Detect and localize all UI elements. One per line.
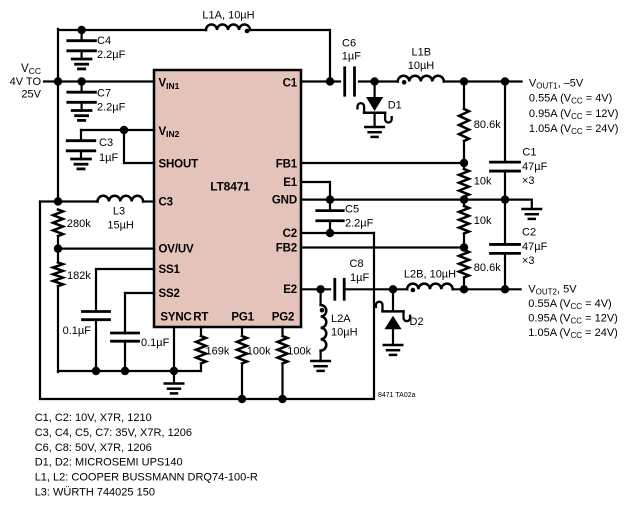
svg-text:L2B, 10µH: L2B, 10µH [404, 269, 456, 281]
svg-text:FB1: FB1 [276, 158, 298, 170]
svg-text:2.2µF: 2.2µF [345, 218, 374, 230]
svg-text:0.55A (VCC = 4V): 0.55A (VCC = 4V) [528, 298, 611, 311]
svg-text:182k: 182k [67, 270, 91, 282]
svg-text:C6, C8: 50V, X7R, 1206: C6, C8: 50V, X7R, 1206 [35, 442, 152, 454]
svg-text:C5: C5 [345, 204, 359, 216]
svg-text:SS2: SS2 [159, 288, 180, 300]
svg-text:C3: C3 [159, 196, 173, 208]
svg-text:C1: C1 [522, 147, 536, 159]
svg-text:SS1: SS1 [159, 264, 181, 276]
svg-text:47µF: 47µF [522, 241, 548, 253]
svg-text:169k: 169k [206, 346, 230, 358]
svg-text:80.6k: 80.6k [474, 119, 501, 131]
svg-text:C2: C2 [522, 227, 536, 239]
svg-text:25V: 25V [21, 89, 41, 101]
svg-text:PG2: PG2 [272, 312, 295, 324]
svg-text:SHOUT: SHOUT [159, 158, 199, 170]
svg-text:D1: D1 [388, 100, 402, 112]
svg-text:4V TO: 4V TO [10, 76, 42, 88]
svg-text:L3: L3 [113, 206, 125, 218]
svg-text:C3: C3 [99, 137, 113, 149]
svg-text:×3: ×3 [522, 255, 535, 267]
svg-text:SYNC: SYNC [160, 312, 191, 324]
svg-text:10µH: 10µH [331, 327, 358, 339]
svg-text:C2: C2 [283, 228, 297, 240]
svg-text:RT: RT [193, 312, 208, 324]
svg-text:D1, D2: MICROSEMI UPS140: D1, D2: MICROSEMI UPS140 [35, 457, 183, 469]
svg-text:1µF: 1µF [350, 272, 369, 284]
svg-text:L1A, 10µH: L1A, 10µH [202, 10, 254, 22]
svg-text:FB2: FB2 [276, 243, 297, 255]
svg-text:0.55A (VCC = 4V): 0.55A (VCC = 4V) [529, 93, 612, 106]
svg-text:1µF: 1µF [99, 152, 118, 164]
svg-text:L1B: L1B [412, 47, 432, 59]
svg-text:OV/UV: OV/UV [159, 244, 195, 256]
svg-text:8471 TA02a: 8471 TA02a [378, 392, 416, 399]
svg-text:1µF: 1µF [342, 51, 361, 63]
svg-text:0.1µF: 0.1µF [141, 337, 170, 349]
svg-text:47µF: 47µF [522, 161, 548, 173]
svg-text:L2A: L2A [331, 313, 351, 325]
svg-text:D2: D2 [410, 316, 424, 328]
svg-text:100k: 100k [287, 346, 311, 358]
svg-text:0.1µF: 0.1µF [63, 325, 92, 337]
svg-text:×3: ×3 [522, 175, 535, 187]
svg-text:GND: GND [272, 195, 297, 207]
svg-text:2.2µF: 2.2µF [97, 102, 126, 114]
svg-text:C1: C1 [283, 78, 298, 90]
svg-text:C6: C6 [342, 38, 356, 50]
svg-text:10k: 10k [474, 215, 492, 227]
svg-text:280k: 280k [67, 218, 91, 230]
svg-text:C3, C4, C5, C7: 35V, X7R, 1206: C3, C4, C5, C7: 35V, X7R, 1206 [35, 427, 192, 439]
svg-text:L3: WÜRTH 744025 150: L3: WÜRTH 744025 150 [35, 487, 155, 499]
svg-text:L1, L2: COOPER BUSSMANN DRQ74-: L1, L2: COOPER BUSSMANN DRQ74-100-R [35, 472, 258, 484]
svg-text:2.2µF: 2.2µF [97, 49, 126, 61]
svg-text:PG1: PG1 [231, 312, 254, 324]
svg-text:C1, C2: 10V, X7R, 1210: C1, C2: 10V, X7R, 1210 [35, 412, 152, 424]
svg-text:C8: C8 [350, 258, 364, 270]
svg-text:E1: E1 [283, 177, 298, 189]
svg-text:10µH: 10µH [408, 60, 435, 72]
svg-text:C7: C7 [97, 88, 111, 100]
svg-text:10k: 10k [474, 176, 492, 188]
svg-text:LT8471: LT8471 [210, 179, 250, 193]
svg-text:C4: C4 [97, 35, 111, 47]
svg-text:100k: 100k [247, 346, 271, 358]
svg-text:15µH: 15µH [107, 220, 134, 232]
svg-text:E2: E2 [283, 284, 297, 296]
svg-text:80.6k: 80.6k [474, 262, 501, 274]
